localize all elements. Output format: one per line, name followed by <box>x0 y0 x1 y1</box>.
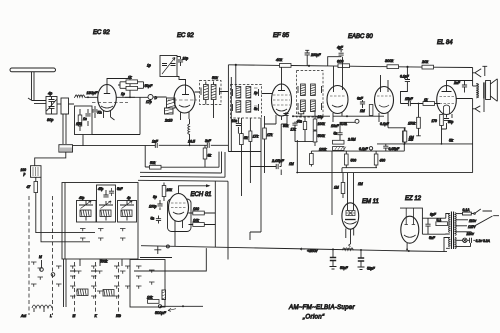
svg-text:300k: 300k <box>385 59 394 63</box>
oscillator coil box <box>62 183 138 260</box>
svg-text:„Orion“: „Orion“ <box>302 314 325 321</box>
svg-text:EM 11: EM 11 <box>362 199 379 205</box>
svg-text:3nF: 3nF <box>205 139 212 143</box>
svg-text:4p: 4p <box>127 196 131 200</box>
detector output network <box>296 99 472 216</box>
output transformer <box>473 82 485 98</box>
svg-text:2.5M: 2.5M <box>347 138 356 142</box>
svg-text:p: p <box>23 172 26 176</box>
svg-text:6.3v 0.3A: 6.3v 0.3A <box>476 239 491 243</box>
svg-text:460: 460 <box>380 159 386 163</box>
svg-text:EC 92: EC 92 <box>93 30 110 36</box>
svg-text:127v: 127v <box>468 225 476 229</box>
svg-text:180pF: 180pF <box>87 91 98 95</box>
svg-text:500k: 500k <box>318 134 326 138</box>
svg-text:KG: KG <box>116 314 121 318</box>
svg-text:150k: 150k <box>408 122 416 126</box>
svg-text:500pF: 500pF <box>155 311 166 315</box>
volume pot line <box>155 305 203 315</box>
coil box2 internals <box>98 187 124 221</box>
resistor 20k <box>421 60 434 69</box>
resistor 600 <box>337 60 350 68</box>
bottom band coils <box>32 260 114 313</box>
L wire to switch <box>134 248 206 271</box>
svg-text:50pF: 50pF <box>145 84 154 88</box>
svg-text:EC 92: EC 92 <box>177 33 194 39</box>
svg-text:8k: 8k <box>208 154 212 158</box>
svg-text:50k: 50k <box>150 161 156 165</box>
svg-text:0.1pF: 0.1pF <box>380 122 390 126</box>
svg-text:110v: 110v <box>469 219 476 223</box>
EM11 feed wires <box>334 173 363 212</box>
svg-text:600: 600 <box>337 60 344 64</box>
svg-text:17k: 17k <box>267 133 273 137</box>
svg-text:10p: 10p <box>183 57 189 61</box>
cap 5n at ECH81 <box>151 216 162 224</box>
shielded lead <box>57 98 74 144</box>
wire V1 to V2 <box>92 97 167 135</box>
IF transformer 1 <box>200 76 229 118</box>
mains fuse and voltage selector <box>456 208 499 236</box>
left column resistors under EF85 <box>263 116 298 175</box>
svg-text:Ant: Ant <box>20 314 27 318</box>
svg-text:0.1A: 0.1A <box>463 208 471 212</box>
wire to V1 grid <box>74 96 98 98</box>
AM IF line <box>73 139 262 152</box>
plate cap 2nF <box>462 85 467 87</box>
coil box3 internals <box>120 196 134 221</box>
wires below IF transformer 2 <box>232 118 262 240</box>
plate resistor EF85 40k <box>276 58 291 67</box>
line A with 50k <box>145 145 219 169</box>
cathode cap C2 <box>92 106 101 118</box>
EM11 cathode coil <box>343 229 354 250</box>
tube V8 EM11 <box>342 203 359 238</box>
svg-text:1k: 1k <box>424 98 428 102</box>
IFT3 secondary network <box>291 112 318 142</box>
svg-text:5k: 5k <box>449 139 454 143</box>
ECH81 anode resistors <box>189 181 216 247</box>
speaker <box>484 79 497 112</box>
svg-text:K: K <box>95 314 98 318</box>
svg-text:0.1pF: 0.1pF <box>400 75 410 79</box>
svg-text:L: L <box>50 314 52 318</box>
svg-text:40n: 40n <box>297 119 303 123</box>
antenna matching box <box>46 92 57 123</box>
svg-text:EZ 12: EZ 12 <box>405 196 422 202</box>
volume line with cap 2.05 <box>250 151 313 169</box>
vertical bus lines <box>228 65 231 152</box>
trimmer <box>146 95 158 105</box>
osc coil below V2 <box>188 119 195 145</box>
svg-text:M: M <box>73 314 76 318</box>
svg-text:200pF: 200pF <box>310 53 322 57</box>
svg-text:100k: 100k <box>318 122 326 126</box>
tube V5 EABC80 b <box>375 75 414 145</box>
box to switch stubs <box>80 259 122 266</box>
svg-text:+250v: +250v <box>307 249 319 253</box>
coil L1 <box>75 91 98 97</box>
svg-text:45p: 45p <box>98 187 104 191</box>
svg-text:2.05pF: 2.05pF <box>271 159 285 163</box>
tube V9 EZ12 <box>401 208 419 251</box>
wire connector to filter <box>35 152 66 166</box>
wire tuning box to V2 <box>177 77 186 86</box>
svg-text:10nF: 10nF <box>331 124 340 128</box>
svg-text:EABC 80: EABC 80 <box>348 34 373 40</box>
V1 input box <box>75 106 93 146</box>
svg-text:4p: 4p <box>48 92 52 96</box>
svg-text:2nF: 2nF <box>453 81 461 85</box>
band switch dashed shafts <box>29 196 119 315</box>
ECH81 grid resistor 1k <box>162 183 172 202</box>
svg-text:4pF: 4pF <box>337 46 344 50</box>
svg-text:40p: 40p <box>79 196 85 200</box>
svg-text:50pF: 50pF <box>340 266 349 270</box>
svg-text:1p: 1p <box>147 64 151 68</box>
tube V6 EL84 <box>437 81 457 127</box>
svg-text:100p: 100p <box>149 205 157 209</box>
tube V4 EABC80 a <box>327 57 348 122</box>
EL84 grid network <box>401 97 441 136</box>
svg-text:10p: 10p <box>318 115 324 119</box>
mid switch box <box>130 260 166 308</box>
dial lamp <box>456 238 491 247</box>
svg-text:500: 500 <box>351 159 357 163</box>
antenna dipole <box>10 68 56 104</box>
band labels <box>20 314 121 318</box>
svg-text:EL 84: EL 84 <box>437 40 453 46</box>
svg-text:Ka: Ka <box>98 111 102 115</box>
svg-text:220v: 220v <box>466 232 475 236</box>
plate cap C3 <box>121 79 135 99</box>
svg-text:AM~FM~ELBIA-Super: AM~FM~ELBIA-Super <box>288 304 355 311</box>
svg-text:1p: 1p <box>254 91 258 95</box>
svg-text:20k: 20k <box>421 60 429 64</box>
detector parts between V4 V5 <box>333 97 390 127</box>
svg-text:5n: 5n <box>254 107 258 111</box>
svg-text:8pF: 8pF <box>430 213 437 217</box>
EL84 cathode network <box>432 115 454 145</box>
power transformer <box>444 212 456 252</box>
svg-text:5nF: 5nF <box>429 236 436 240</box>
tube V7 ECH81 <box>168 194 192 247</box>
svg-text:5nF: 5nF <box>117 187 124 191</box>
svg-text:0.1: 0.1 <box>437 218 442 222</box>
svg-text:180: 180 <box>193 207 199 211</box>
svg-text:1p: 1p <box>121 92 125 96</box>
svg-text:47: 47 <box>27 185 31 189</box>
svg-text:50p: 50p <box>448 120 454 124</box>
switch left contacts <box>38 255 55 280</box>
svg-text:17k: 17k <box>291 128 297 132</box>
ECH81 plate arrow <box>179 184 211 193</box>
svg-text:ECH 81: ECH 81 <box>191 192 212 198</box>
svg-text:1nF: 1nF <box>152 140 159 144</box>
svg-text:EF 85: EF 85 <box>273 33 290 39</box>
mains filter box <box>21 166 42 178</box>
svg-text:150: 150 <box>76 122 82 126</box>
svg-text:80k: 80k <box>283 124 289 128</box>
svg-text:52pF: 52pF <box>367 267 376 271</box>
svg-text:16.5: 16.5 <box>188 140 195 144</box>
svg-text:17k: 17k <box>253 135 259 139</box>
IF transformer 3 <box>297 71 324 118</box>
tube V2 EC92 <box>168 85 200 120</box>
svg-text:10k: 10k <box>167 188 173 192</box>
V2 grid coils <box>164 98 175 123</box>
svg-text:170: 170 <box>432 119 438 123</box>
FM dipole lower <box>472 106 480 112</box>
connector <box>59 145 73 152</box>
svg-text:1M: 1M <box>334 186 339 190</box>
svg-text:1M: 1M <box>360 109 365 113</box>
svg-text:6nF: 6nF <box>357 97 364 101</box>
IF transformer 2 <box>231 85 273 119</box>
rectifier wiring caps <box>400 208 447 240</box>
svg-text:5n: 5n <box>334 132 338 136</box>
svg-text:40k: 40k <box>276 58 283 62</box>
tuning capacitor box <box>147 56 188 77</box>
B+ bottom rail <box>141 245 447 254</box>
filter electrolytics <box>330 249 376 270</box>
EF85 cathode parts <box>283 112 289 128</box>
svg-text:1M: 1M <box>358 182 363 186</box>
svg-text:2x10: 2x10 <box>164 119 172 123</box>
AVC line <box>292 115 330 117</box>
svg-text:500k: 500k <box>100 260 108 264</box>
decoupling caps top <box>305 46 344 66</box>
svg-text:50k: 50k <box>212 76 218 80</box>
svg-text:80p: 80p <box>47 118 53 122</box>
FM dipole top right <box>472 66 487 77</box>
switch contacts inside box <box>80 229 126 241</box>
coil box1 internals <box>79 196 93 221</box>
svg-text:1M: 1M <box>409 136 414 140</box>
svg-text:5n: 5n <box>151 217 155 221</box>
inner chassis line <box>140 257 172 259</box>
svg-text:M: M <box>39 255 42 259</box>
title <box>288 304 355 321</box>
svg-text:1M: 1M <box>289 162 294 166</box>
cap 0.17uF <box>400 67 410 104</box>
resistor stack right of IFT3 <box>313 112 325 146</box>
ECH81 cathode cap <box>149 195 163 210</box>
svg-text:8p: 8p <box>153 195 157 199</box>
filter R boxes <box>118 76 153 91</box>
switch bus vertical <box>64 183 67 308</box>
svg-text:5k: 5k <box>244 136 248 140</box>
svg-text:1k: 1k <box>128 76 132 80</box>
svg-text:0.1pF: 0.1pF <box>359 147 369 151</box>
svg-text:1n: 1n <box>83 117 87 121</box>
svg-text:15pF: 15pF <box>405 97 414 101</box>
svg-text:10k: 10k <box>147 296 153 300</box>
resistor 300k <box>385 59 399 69</box>
svg-text:10n: 10n <box>232 119 238 123</box>
svg-text:17p: 17p <box>146 100 152 104</box>
svg-text:0.05pF: 0.05pF <box>389 147 400 151</box>
B+ top rail <box>228 64 472 99</box>
nested AM lines <box>138 152 228 260</box>
tube V3 EF85 <box>265 67 292 124</box>
switch contact rows <box>31 262 131 299</box>
svg-text:10k: 10k <box>193 219 199 223</box>
am antenna feed lines <box>27 177 96 242</box>
tube V1 EC92 <box>92 79 128 121</box>
resistor 8k <box>203 145 211 167</box>
